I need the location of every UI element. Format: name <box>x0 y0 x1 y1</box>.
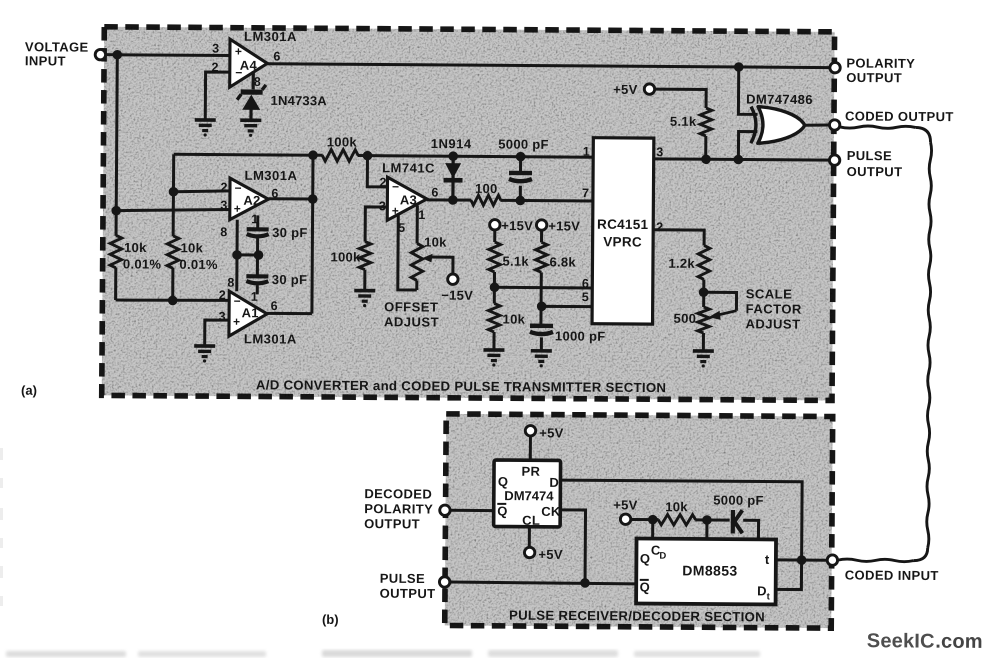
wire rail to cap <box>707 518 730 521</box>
wire t pin to coded input <box>776 558 827 561</box>
node 1N914 bottom <box>448 195 458 205</box>
ground under 10k chain <box>483 350 504 367</box>
pin 6 label A3 <box>431 186 439 200</box>
svg-text:+15V: +15V <box>501 218 533 233</box>
node pin5 junction <box>537 301 547 311</box>
svg-text:1.2k: 1.2k <box>668 256 695 271</box>
svg-text:+5V: +5V <box>539 425 564 440</box>
transmitter section dashed enclosure (a) <box>102 27 835 401</box>
svg-text:3: 3 <box>656 145 664 159</box>
label DECODED POLARITY OUTPUT <box>364 486 433 531</box>
svg-text:+5V: +5V <box>538 547 563 562</box>
minus sign A4 <box>235 66 242 80</box>
wire +5V DM8853 rail <box>631 518 707 522</box>
title transmitter section <box>256 377 666 395</box>
wire vertical left loop (A2 pin2 chain) <box>173 154 174 300</box>
svg-text:Q: Q <box>640 551 650 566</box>
pin 7 label RC4151 <box>582 186 590 200</box>
wire 1000pF to ground <box>540 337 543 349</box>
wire RC4151 pin6 <box>494 286 592 290</box>
wire +15V to 5.1k <box>493 230 496 242</box>
svg-text:A/D CONVERTER and CODED PULSE: A/D CONVERTER and CODED PULSE TRANSMITTE… <box>256 377 666 395</box>
label 10k (right) <box>181 240 204 255</box>
resistor 10k 0.01% left <box>110 235 122 268</box>
pin 1 label RC4151 <box>583 145 591 159</box>
op-amp A1 LM301A <box>229 291 267 336</box>
wire CL to +5V <box>528 526 531 547</box>
wire cap to A1 pin1 stub <box>256 285 259 294</box>
ground under zener <box>240 120 261 137</box>
pin 2 label A1 <box>219 288 227 302</box>
svg-text:D: D <box>757 583 766 598</box>
wire D output run <box>560 480 802 560</box>
svg-text:5.1k: 5.1k <box>502 254 529 269</box>
pin 8 label A1 <box>227 276 235 290</box>
label LM301A (A4) <box>244 29 297 44</box>
label 10k lower <box>503 312 526 327</box>
node polarity XOR tap <box>734 62 744 72</box>
svg-text:5: 5 <box>582 290 590 304</box>
svg-text:2: 2 <box>220 180 228 194</box>
terminal +5V DM8853 <box>620 514 630 524</box>
node CK pulse junction <box>580 578 590 588</box>
svg-text:500: 500 <box>674 311 697 326</box>
resistor 10k 0.01% right <box>167 236 179 269</box>
wire A2 output <box>268 197 312 200</box>
svg-text:100k: 100k <box>327 134 358 149</box>
label LM741C <box>382 160 435 175</box>
label LM301A (A1) <box>244 331 297 346</box>
wire Dt loop <box>776 560 802 590</box>
wire A3 pin2 drop <box>367 156 387 187</box>
wire 100k to ground <box>363 270 366 290</box>
label SCALE <box>746 286 793 301</box>
pin 3 label A1 <box>219 310 227 324</box>
label +5V transmitter <box>613 82 638 97</box>
pin 2 label RC4151 <box>656 220 664 234</box>
wire A3 pin1 stub <box>416 205 419 243</box>
terminal PULSE OUTPUT (transmitter) <box>829 155 839 165</box>
resistor 1.2k <box>698 245 710 279</box>
wire XOR output <box>804 123 830 127</box>
svg-text:5000 pF: 5000 pF <box>713 493 764 508</box>
terminal +15V right <box>536 220 546 230</box>
wire voltage input to A4 pin3 <box>105 53 230 57</box>
label CODED OUTPUT <box>845 108 954 124</box>
pin 1 label A1 <box>251 290 259 304</box>
label -15V offset <box>441 288 473 303</box>
capacitor 5000 pF (transmitter) <box>509 173 532 181</box>
svg-text:CODED OUTPUT: CODED OUTPUT <box>845 108 954 124</box>
ground under 1000pF <box>531 351 552 368</box>
label CL <box>522 513 540 528</box>
plus sign A2 <box>234 202 241 216</box>
svg-text:POLARITY: POLARITY <box>364 501 433 516</box>
wire 500 to ground <box>702 333 705 350</box>
resistor 100 horizontal <box>471 195 501 205</box>
plus sign A4 <box>235 44 242 58</box>
label LM301A (A2) <box>245 168 298 183</box>
svg-text:PR: PR <box>521 464 540 479</box>
label 5000 pF (transmitter) <box>498 137 549 152</box>
svg-text:A2: A2 <box>243 193 260 208</box>
wire A1 output <box>267 312 312 315</box>
svg-text:PULSE RECEIVER/DECODER SECTION: PULSE RECEIVER/DECODER SECTION <box>509 608 765 625</box>
node pulse XOR tap <box>734 155 744 165</box>
resistor 5.1k pullup <box>700 108 712 136</box>
node A1 pin2 junction <box>168 296 178 306</box>
label +5V DM7474 top <box>539 425 564 440</box>
svg-text:DM7474: DM7474 <box>504 488 554 503</box>
label A3 <box>400 192 417 207</box>
offset wiper arrow <box>422 254 453 274</box>
svg-text:+15V: +15V <box>548 218 580 233</box>
svg-text:(b): (b) <box>322 612 339 627</box>
scan ghost band at bottom edge <box>6 650 760 657</box>
pin 5 label A3 <box>398 221 406 235</box>
label ADJUST <box>384 314 439 329</box>
node cap chain junction left <box>232 250 242 260</box>
label 1N914 <box>431 136 472 151</box>
svg-text:−: − <box>234 181 241 195</box>
svg-text:0.01%: 0.01% <box>123 256 162 271</box>
node A2 output junction <box>308 194 318 204</box>
svg-text:OFFSET: OFFSET <box>384 299 438 314</box>
label 10k offset <box>424 235 447 250</box>
svg-text:LM301A: LM301A <box>245 168 298 183</box>
potentiometer 10k offset <box>411 243 423 280</box>
label 500 <box>674 311 697 326</box>
wire between caps <box>256 238 259 275</box>
label 1000 pF <box>555 328 606 343</box>
svg-text:1000 pF: 1000 pF <box>555 328 606 343</box>
wire pulse output to DM8853 Qbar <box>450 582 636 584</box>
zener diode 1N4733A <box>237 85 266 120</box>
label DM747486 <box>746 92 813 107</box>
svg-text:7: 7 <box>582 186 590 200</box>
IC DM7474 box <box>494 460 561 527</box>
wire 1N914 branch <box>451 156 455 200</box>
svg-text:2: 2 <box>656 220 664 234</box>
label +15V right <box>548 218 580 233</box>
capacitor 30 pF lower <box>246 276 268 283</box>
svg-text:30 pF: 30 pF <box>272 225 308 240</box>
minus sign A3 <box>392 180 399 194</box>
ground under 100k <box>354 291 375 308</box>
label 1.2k <box>668 256 695 271</box>
label PULSE OUTPUT (receiver) <box>380 571 436 601</box>
svg-text:LM301A: LM301A <box>244 29 297 44</box>
wire vertical from input node down to A1 input line <box>116 55 118 300</box>
label DM8853 <box>682 562 737 578</box>
wire bottom line to A1 pin2 <box>116 300 231 301</box>
svg-text:RC4151: RC4151 <box>597 217 649 232</box>
resistor 100k horizontal <box>322 149 358 161</box>
svg-text:10k: 10k <box>503 312 526 327</box>
pin CK label DM7474 <box>541 504 561 519</box>
pin t label DM8853 <box>765 552 770 567</box>
pin 1 label A2 <box>251 212 259 226</box>
wire A2 pin2 <box>173 190 231 192</box>
node 1N914 top <box>448 151 458 161</box>
capacitor 1000 pF <box>530 326 553 334</box>
label Q DM7474 <box>498 474 508 489</box>
svg-text:5000 pF: 5000 pF <box>498 137 549 152</box>
label 10k (left) <box>124 240 147 255</box>
svg-text:+: + <box>235 44 242 58</box>
svg-text:SeekIC: SeekIC <box>867 630 935 652</box>
minus sign A1 <box>234 294 241 308</box>
svg-text:DM8853: DM8853 <box>682 562 737 578</box>
label 100k horizontal <box>327 134 358 149</box>
potentiometer 500 <box>698 307 710 333</box>
ground under 500 <box>693 351 714 368</box>
svg-text:+5V: +5V <box>613 82 638 97</box>
pin 1 label A3 <box>418 208 426 222</box>
svg-text:6: 6 <box>271 299 279 313</box>
node rail junction 1 <box>648 515 658 525</box>
svg-text:+5V: +5V <box>613 497 638 512</box>
op-amp A2 LM301A <box>230 178 269 220</box>
node 5000pF bottom <box>515 196 525 206</box>
wire cap to box <box>743 520 759 539</box>
wire output loop vertical <box>312 155 313 313</box>
svg-text:DM747486: DM747486 <box>746 92 813 107</box>
wire 5.1k pullup to pulse line <box>704 136 707 159</box>
svg-text:3: 3 <box>212 42 220 56</box>
pin 3 label A3 <box>379 199 387 213</box>
svg-text:A4: A4 <box>240 58 258 73</box>
label +5V DM8853 <box>613 497 638 512</box>
label 100 <box>475 181 498 196</box>
wire A2 pin3 <box>116 209 231 212</box>
svg-text:OUTPUT: OUTPUT <box>847 164 903 179</box>
label 1N4733A <box>271 93 328 108</box>
svg-text:D: D <box>659 551 666 562</box>
resistor 10k receiver <box>658 514 696 525</box>
wire 5.1k to node <box>493 272 496 303</box>
pin 6 label A4 <box>273 49 281 63</box>
scale factor wiper arrow <box>703 292 736 320</box>
node A2 pin3 tap <box>111 206 121 216</box>
svg-text:−15V: −15V <box>441 288 473 303</box>
label OFFSET <box>384 299 438 314</box>
XOR gate DM747486 <box>751 107 805 144</box>
svg-text:2: 2 <box>219 288 227 302</box>
wire RC4151 pin5 <box>542 305 592 308</box>
wire A4 pin2 <box>205 72 230 119</box>
label VPRC <box>603 234 642 249</box>
ground under A1 pin3 <box>194 346 215 363</box>
label 30 pF upper <box>272 225 308 240</box>
wire CD stub <box>651 520 654 538</box>
label A4 <box>240 58 258 73</box>
svg-text:CK: CK <box>541 504 561 519</box>
svg-text:SCALE: SCALE <box>746 286 793 301</box>
label +5V DM7474 bottom <box>538 547 563 562</box>
wire cap junction link <box>237 253 258 256</box>
pin 6 label RC4151 <box>582 277 590 291</box>
ground under A4 pin2 <box>195 120 216 137</box>
svg-text:t: t <box>765 552 770 567</box>
resistor 10k lower <box>488 303 500 332</box>
pin 5 label RC4151 <box>582 290 590 304</box>
node coded input junction <box>797 555 807 565</box>
terminal VOLTAGE INPUT <box>95 49 105 59</box>
svg-text:8: 8 <box>220 225 228 239</box>
capacitor 30 pF upper <box>247 229 269 236</box>
wire XOR bottom input <box>738 132 757 160</box>
node A2 pin2 tap <box>169 187 179 197</box>
pin 2 label A3 <box>380 175 388 189</box>
wire A2 pin1 stub <box>256 215 259 228</box>
svg-text:30 pF: 30 pF <box>272 272 308 287</box>
receiver section dashed enclosure (b) <box>445 414 833 628</box>
label 0.01% (left) <box>123 256 162 271</box>
wire A2 pin8 to A1 pin8 <box>235 220 238 291</box>
svg-text:Q: Q <box>640 580 650 595</box>
IC RC4151 VPRC box <box>592 138 654 324</box>
svg-text:A1: A1 <box>242 305 259 320</box>
label A1 <box>242 305 259 320</box>
svg-text:POLARITY: POLARITY <box>846 55 915 70</box>
label Q DM8853 <box>640 551 650 566</box>
label PR <box>521 464 540 479</box>
svg-text:10k: 10k <box>665 499 688 514</box>
wire A3 pin3 <box>365 207 387 242</box>
label CD pin <box>651 543 667 562</box>
wire A1 pin3 <box>205 320 229 345</box>
wire decoded polarity to Qbar <box>450 509 493 512</box>
wire feedback top line <box>174 154 593 157</box>
op-amp A3 LM741C <box>387 177 427 220</box>
label A2 <box>243 193 260 208</box>
svg-text:10k: 10k <box>124 240 147 255</box>
label 5.1k vertical <box>502 254 529 269</box>
label VOLTAGE INPUT <box>25 39 89 68</box>
svg-text:+: + <box>233 315 240 329</box>
label 0.01% (right) <box>179 257 218 272</box>
svg-text:5.1k: 5.1k <box>670 114 697 129</box>
label PULSE OUTPUT (transmitter) <box>847 148 903 179</box>
wire pot bottom stub <box>415 280 418 289</box>
node cap chain junction right <box>254 250 264 260</box>
wire 1.2k to pot <box>702 279 705 306</box>
svg-text:1: 1 <box>418 208 426 222</box>
svg-text:ADJUST: ADJUST <box>384 314 439 329</box>
terminal +5V transmitter <box>644 84 654 94</box>
svg-text:−: − <box>392 180 399 194</box>
label POLARITY OUTPUT <box>846 55 915 85</box>
node scale junction <box>699 287 709 297</box>
pin D label DM7474 <box>549 475 558 490</box>
label RC4151 <box>597 217 649 232</box>
resistor 100k vertical <box>359 242 371 270</box>
IC DM8853 box <box>636 539 776 605</box>
capacitor 5000 pF receiver <box>733 510 743 534</box>
svg-text:OUTPUT: OUTPUT <box>846 70 902 85</box>
wire 5000pF branch <box>519 157 522 201</box>
resistor 5.1k vertical <box>489 242 501 272</box>
label ADJUST (scale) <box>745 316 800 331</box>
wire 6.8k to cap <box>539 272 542 324</box>
svg-text:−: − <box>234 294 241 308</box>
terminal +5V DM7474 bottom <box>524 547 534 557</box>
pin Dt label DM8853 <box>757 583 771 602</box>
terminal PULSE OUTPUT (receiver) <box>439 577 449 587</box>
terminal +5V DM7474 top <box>525 426 535 436</box>
pin 2 label A4 <box>212 60 220 74</box>
svg-text:OUTPUT: OUTPUT <box>380 586 436 601</box>
label (b) <box>322 612 339 627</box>
svg-text:A3: A3 <box>400 192 417 207</box>
node pin6 junction <box>490 282 500 292</box>
svg-text:Q: Q <box>498 474 508 489</box>
wire A4 output / polarity line <box>267 64 830 68</box>
watermark SeekIC.com <box>867 630 983 653</box>
svg-text:CL: CL <box>522 513 540 528</box>
label 30 pF lower <box>272 272 308 287</box>
svg-text:6: 6 <box>431 186 439 200</box>
terminal POLARITY OUTPUT <box>830 62 840 72</box>
label (a) <box>21 383 37 398</box>
svg-text:.com: .com <box>935 631 983 653</box>
terminal CODED INPUT <box>827 555 837 565</box>
svg-text:ADJUST: ADJUST <box>745 316 800 331</box>
svg-text:PULSE: PULSE <box>847 148 892 163</box>
node voltage-input junction <box>112 50 122 60</box>
terminal -15V offset <box>448 274 458 284</box>
svg-text:1N914: 1N914 <box>431 136 472 151</box>
svg-text:+: + <box>234 202 241 216</box>
title receiver section <box>509 608 765 625</box>
resistor 6.8k vertical <box>535 242 547 272</box>
wire 10k to ground <box>492 332 495 349</box>
label CODED INPUT <box>845 567 939 583</box>
node feedback top-left corner <box>308 150 318 160</box>
label 5.1k pullup <box>670 114 697 129</box>
label 10k receiver <box>665 499 688 514</box>
wire A3 output to RC4151 pin7 <box>427 200 593 201</box>
svg-text:1: 1 <box>583 145 591 159</box>
label Qbar DM7474 <box>497 504 507 519</box>
label 5000 pF receiver <box>713 493 764 508</box>
svg-text:LM741C: LM741C <box>382 160 435 175</box>
node 100k right junction <box>363 151 373 161</box>
label DM7474 <box>504 488 554 503</box>
svg-text:(a): (a) <box>21 383 37 398</box>
minus sign A2 <box>234 181 241 195</box>
svg-text:10k: 10k <box>181 240 204 255</box>
pin 6 label A2 <box>271 186 279 200</box>
wire A4 pin8 stub <box>252 71 255 89</box>
terminal DECODED POLARITY OUTPUT <box>440 505 450 515</box>
svg-text:100: 100 <box>475 181 498 196</box>
label +15V left <box>501 218 533 233</box>
svg-text:100k: 100k <box>330 249 361 264</box>
plus sign A1 <box>233 315 240 329</box>
label FACTOR <box>746 301 802 316</box>
pin 3 label A2 <box>220 198 228 212</box>
plus sign A3 <box>392 204 399 218</box>
svg-text:LM301A: LM301A <box>244 331 297 346</box>
wire +5V to PR <box>529 436 532 461</box>
svg-text:0.01%: 0.01% <box>179 257 218 272</box>
wire +15V to 6.8k <box>540 230 543 242</box>
terminal CODED OUTPUT <box>829 120 839 130</box>
wire XOR top input <box>738 67 757 114</box>
label 6.8k vertical <box>549 254 576 269</box>
